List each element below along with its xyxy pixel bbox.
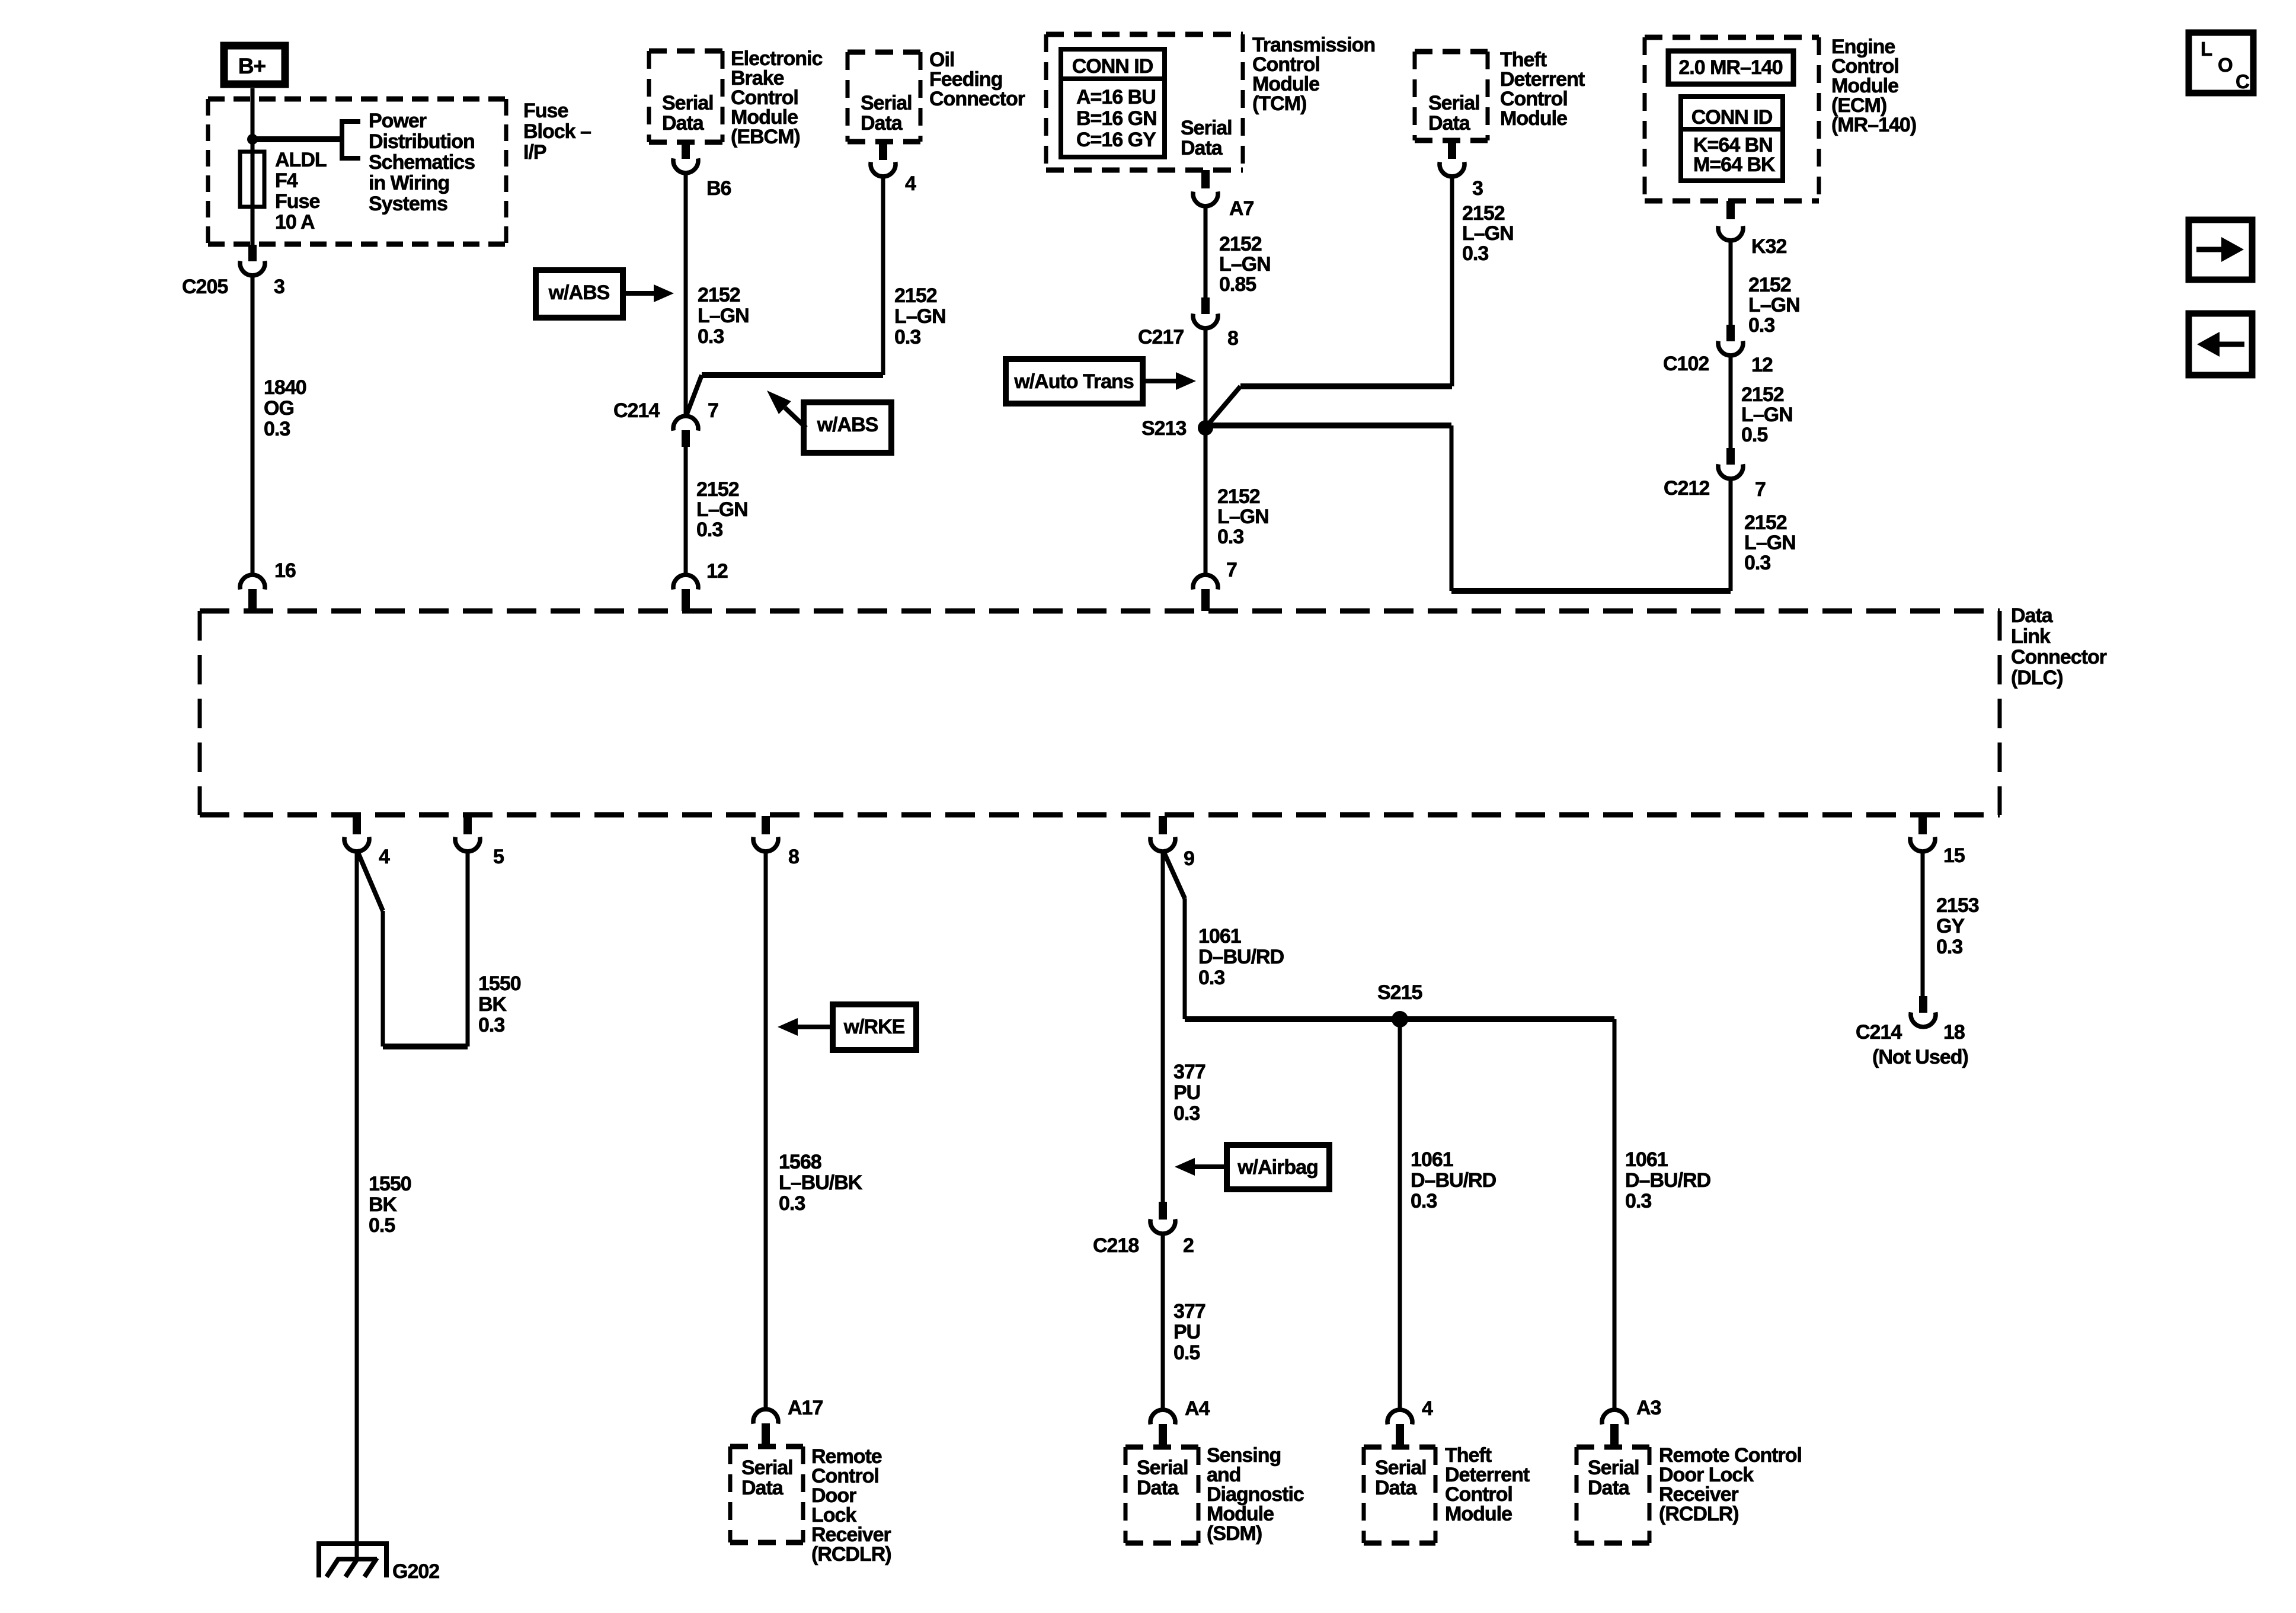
svg-text:D–BU/RD: D–BU/RD	[1625, 1169, 1711, 1192]
svg-text:G202: G202	[392, 1560, 439, 1583]
svg-text:Serial: Serial	[1428, 92, 1480, 114]
svg-text:Distribution: Distribution	[369, 130, 475, 153]
connector C217 pin 8	[1193, 313, 1218, 328]
svg-text:3: 3	[1472, 177, 1483, 200]
connector theft pin 3	[1440, 162, 1464, 177]
svg-text:C: C	[2236, 71, 2249, 92]
connector B6 of EBCM	[673, 158, 698, 173]
svg-text:w/Airbag: w/Airbag	[1237, 1156, 1318, 1179]
svg-text:0.3: 0.3	[1173, 1102, 1200, 1125]
svg-text:I/P: I/P	[523, 141, 546, 164]
svg-text:Serial: Serial	[741, 1457, 793, 1479]
wire K32 to C102	[1729, 239, 1733, 325]
svg-text:Serial: Serial	[1588, 1457, 1639, 1479]
module SDM serial data box	[1125, 1445, 1198, 1450]
svg-text:0.3: 0.3	[1625, 1190, 1651, 1212]
svg-text:Serial: Serial	[662, 92, 714, 114]
wire S215 to theft module pin 4	[1398, 1019, 1402, 1411]
svg-text:A7: A7	[1229, 197, 1254, 220]
wire diagonal into C214	[686, 375, 702, 415]
svg-text:0.3: 0.3	[698, 325, 724, 348]
ground G202	[319, 1544, 386, 1577]
svg-text:Serial: Serial	[1375, 1457, 1427, 1479]
wire C212 return path to S213	[1729, 477, 1733, 591]
flag box w/Auto Trans with arrow	[1006, 359, 1143, 404]
svg-text:2152: 2152	[1219, 233, 1262, 255]
svg-text:0.3: 0.3	[779, 1192, 805, 1215]
CONN ID table (ECM)	[1681, 97, 1783, 181]
connector A4	[1150, 1410, 1175, 1425]
svg-text:16: 16	[274, 559, 296, 582]
svg-text:1550: 1550	[369, 1173, 411, 1195]
svg-text:(Not Used): (Not Used)	[1872, 1046, 1968, 1068]
svg-text:Data: Data	[1181, 137, 1223, 159]
svg-text:BK: BK	[369, 1193, 398, 1216]
connector oil pin 4	[871, 162, 896, 177]
wire B+ to fuse	[251, 88, 255, 154]
svg-text:0.3: 0.3	[894, 326, 920, 348]
svg-text:5: 5	[493, 846, 504, 868]
svg-text:Serial: Serial	[1181, 117, 1232, 139]
svg-text:18: 18	[1943, 1021, 1965, 1044]
wire oil pin 4 to junction with EBCM wire	[881, 175, 885, 375]
flag box w/ABS with arrow	[536, 270, 623, 318]
connector C214 pin 18 (Not Used)	[1911, 1012, 1936, 1027]
wire C102 to C212	[1729, 354, 1733, 448]
svg-text:L–GN: L–GN	[894, 305, 946, 328]
svg-text:2152: 2152	[1462, 202, 1505, 225]
svg-text:Data: Data	[662, 112, 705, 135]
svg-text:S215: S215	[1377, 981, 1422, 1004]
connector C218 pin 2	[1150, 1219, 1175, 1234]
connector DLC pin 5	[455, 837, 480, 852]
svg-text:PU: PU	[1173, 1321, 1200, 1343]
wire S215 horizontal run	[1185, 1016, 1614, 1022]
svg-text:Data: Data	[1588, 1477, 1630, 1499]
svg-text:377: 377	[1173, 1061, 1205, 1083]
svg-text:w/ABS: w/ABS	[548, 281, 610, 304]
svg-text:OG: OG	[264, 397, 294, 420]
svg-text:Power: Power	[369, 110, 427, 132]
svg-text:0.3: 0.3	[1411, 1190, 1437, 1212]
svg-text:1568: 1568	[779, 1151, 821, 1173]
connector DLC pin 8	[753, 837, 778, 852]
svg-text:Block –: Block –	[523, 120, 591, 143]
svg-text:A17: A17	[788, 1397, 823, 1419]
svg-text:0.5: 0.5	[1741, 424, 1767, 446]
svg-text:PU: PU	[1173, 1081, 1200, 1104]
svg-text:Data: Data	[861, 112, 903, 135]
connector DLC pin 7	[1193, 575, 1218, 590]
svg-text:GY: GY	[1936, 915, 1965, 937]
wire C217 through S213 to DLC pin 7	[1204, 327, 1208, 576]
svg-text:BK: BK	[478, 993, 507, 1016]
connector DLC pin 9	[1150, 837, 1175, 852]
connector DLC pin 16	[240, 575, 265, 590]
svg-text:2152: 2152	[1744, 511, 1787, 534]
svg-text:1550: 1550	[478, 972, 521, 995]
label box 2.0 MR-140	[1668, 51, 1793, 84]
svg-text:C214: C214	[1856, 1021, 1902, 1044]
module theft deterrent serial data box (bottom)	[1364, 1445, 1435, 1450]
svg-text:0.3: 0.3	[478, 1014, 504, 1036]
svg-text:Serial: Serial	[861, 92, 912, 114]
module TCM dashed box	[1046, 32, 1243, 37]
wire A7 to C217	[1204, 204, 1208, 297]
svg-text:2: 2	[1183, 1234, 1194, 1257]
module Theft Deterrent serial data box	[1415, 49, 1488, 55]
svg-text:7: 7	[1226, 559, 1237, 581]
svg-text:Connector: Connector	[2011, 646, 2107, 668]
svg-text:Systems: Systems	[369, 193, 447, 215]
svg-text:L–GN: L–GN	[696, 498, 748, 521]
svg-text:(TCM): (TCM)	[1252, 92, 1306, 115]
node: junction dot in fuse block	[247, 134, 258, 145]
svg-text:0.3: 0.3	[1744, 552, 1770, 574]
svg-text:Module: Module	[1445, 1503, 1512, 1525]
wire C205 to DLC pin 16	[251, 274, 255, 576]
connector C205 pin 3	[240, 261, 265, 276]
legend LOC box	[2189, 33, 2253, 93]
flag box w/Airbag with arrow	[1227, 1145, 1329, 1189]
svg-text:(DLC): (DLC)	[2011, 667, 2063, 689]
svg-text:1061: 1061	[1198, 925, 1241, 948]
svg-text:L–GN: L–GN	[1744, 532, 1796, 554]
svg-text:2.0 MR–140: 2.0 MR–140	[1678, 56, 1782, 79]
svg-text:9: 9	[1184, 847, 1194, 870]
svg-text:L–BU/BK: L–BU/BK	[779, 1172, 863, 1194]
svg-text:Connector: Connector	[929, 88, 1025, 110]
svg-text:1840: 1840	[264, 376, 306, 399]
svg-text:Fuse: Fuse	[275, 190, 319, 213]
svg-text:7: 7	[708, 399, 718, 422]
wire pin 9 to C218	[1161, 850, 1165, 1203]
svg-text:Data: Data	[1137, 1477, 1179, 1499]
svg-text:0.3: 0.3	[1748, 314, 1774, 337]
wire C214 to DLC pin 12	[684, 447, 688, 576]
svg-text:B+: B+	[238, 54, 266, 78]
connector A3	[1602, 1410, 1627, 1425]
connector DLC pin 4	[344, 837, 369, 852]
svg-text:C217: C217	[1138, 326, 1184, 348]
fuse block dashed box	[208, 97, 506, 102]
connector C102 pin 12	[1718, 341, 1743, 356]
svg-text:15: 15	[1943, 844, 1965, 867]
svg-text:0.5: 0.5	[369, 1214, 395, 1237]
svg-text:(EBCM): (EBCM)	[731, 126, 800, 148]
svg-text:Fuse: Fuse	[523, 100, 568, 122]
svg-text:C214: C214	[613, 399, 660, 422]
module Oil Feeding Connector serial data box	[848, 50, 920, 55]
wire C218 to A4	[1161, 1232, 1165, 1411]
connector DLC pin 12	[673, 575, 698, 590]
node S215 splice dot	[1392, 1011, 1408, 1028]
wire B6 to C214	[684, 171, 688, 417]
fuse F4 symbol	[251, 153, 255, 209]
svg-text:C102: C102	[1663, 353, 1709, 375]
flag box w/ABS lower with diagonal arrow	[804, 402, 891, 453]
svg-text:2152: 2152	[1741, 383, 1784, 406]
svg-text:in Wiring: in Wiring	[369, 172, 449, 194]
svg-text:8: 8	[788, 846, 799, 868]
svg-text:Schematics: Schematics	[369, 151, 475, 174]
svg-text:C212: C212	[1664, 477, 1709, 500]
svg-text:(MR–140): (MR–140)	[1831, 114, 1916, 136]
svg-text:Module: Module	[1500, 107, 1567, 130]
node S213 splice dot	[1198, 420, 1213, 436]
svg-text:L–GN: L–GN	[1217, 505, 1269, 528]
connector DLC pin 15	[1910, 837, 1935, 852]
svg-text:0.5: 0.5	[1173, 1342, 1200, 1364]
wire pin 4 to ground	[355, 850, 359, 1560]
connector C212 pin 7	[1718, 464, 1743, 479]
svg-text:3: 3	[274, 276, 284, 298]
legend right-arrow box	[2189, 220, 2252, 280]
module RCDLR serial data box (right)	[1576, 1445, 1649, 1450]
svg-text:7: 7	[1755, 478, 1766, 501]
svg-text:8: 8	[1227, 327, 1238, 350]
connector theft pin 4	[1387, 1410, 1412, 1425]
svg-text:2153: 2153	[1936, 894, 1979, 917]
bracket symbol	[342, 121, 360, 158]
svg-text:1061: 1061	[1411, 1148, 1453, 1171]
wire S215 to RCDLR pin A3	[1613, 1019, 1617, 1411]
svg-text:Serial: Serial	[1137, 1457, 1188, 1479]
svg-text:10 A: 10 A	[275, 211, 315, 233]
svg-text:4: 4	[379, 846, 390, 868]
wire junction to bracket	[252, 136, 342, 142]
svg-text:L–GN: L–GN	[1741, 404, 1793, 426]
CONN ID table (TCM)	[1061, 49, 1165, 157]
wire pin 4 / pin 5 jumper	[357, 850, 383, 911]
wire pin 15 to C214 pin 18	[1921, 850, 1925, 997]
svg-text:C205: C205	[182, 276, 228, 298]
svg-text:1061: 1061	[1625, 1148, 1668, 1171]
svg-text:ALDL: ALDL	[275, 149, 327, 171]
svg-text:0.3: 0.3	[1198, 966, 1224, 989]
svg-text:377: 377	[1173, 1300, 1205, 1323]
svg-text:CONN ID: CONN ID	[1691, 106, 1773, 129]
svg-text:0.3: 0.3	[696, 519, 722, 541]
svg-text:C=16 GY: C=16 GY	[1076, 129, 1156, 151]
module ECM dashed box	[1645, 35, 1819, 40]
svg-text:B=16 GN: B=16 GN	[1076, 107, 1157, 130]
svg-text:L: L	[2201, 38, 2212, 60]
battery terminal B+	[224, 46, 285, 84]
svg-text:12: 12	[1751, 354, 1773, 376]
svg-text:Data: Data	[2011, 604, 2054, 627]
svg-text:L–GN: L–GN	[1748, 294, 1800, 316]
wire theft pin 3 to S213	[1450, 175, 1454, 386]
wire pin 8 to A17	[764, 850, 768, 1410]
svg-text:D–BU/RD: D–BU/RD	[1411, 1169, 1496, 1192]
svg-text:0.3: 0.3	[1217, 526, 1243, 548]
svg-text:0.3: 0.3	[1936, 936, 1962, 958]
svg-text:4: 4	[905, 172, 916, 195]
svg-text:4: 4	[1422, 1397, 1433, 1420]
svg-text:12: 12	[706, 560, 728, 583]
svg-text:(SDM): (SDM)	[1207, 1522, 1262, 1545]
svg-text:(RCDLR): (RCDLR)	[1659, 1503, 1739, 1525]
flag box w/RKE with arrow	[833, 1004, 916, 1050]
connector C214 pin 7	[673, 416, 698, 431]
svg-text:(RCDLR): (RCDLR)	[811, 1543, 891, 1566]
connector A7 of TCM	[1193, 191, 1218, 206]
svg-text:2152: 2152	[696, 478, 739, 501]
svg-text:w/RKE: w/RKE	[843, 1016, 905, 1038]
svg-text:Data: Data	[1375, 1477, 1418, 1499]
svg-text:w/Auto Trans: w/Auto Trans	[1013, 370, 1134, 393]
svg-text:A3: A3	[1636, 1397, 1661, 1419]
svg-text:C218: C218	[1093, 1234, 1139, 1257]
svg-text:CONN ID: CONN ID	[1072, 55, 1153, 78]
svg-text:0.85: 0.85	[1219, 273, 1256, 296]
svg-text:0.3: 0.3	[1462, 242, 1488, 265]
svg-text:B6: B6	[706, 177, 731, 200]
svg-text:L–GN: L–GN	[1219, 253, 1271, 276]
svg-text:L–GN: L–GN	[698, 305, 749, 327]
module RCDLR serial data box	[730, 1444, 803, 1449]
svg-text:F4: F4	[275, 169, 298, 192]
svg-text:Link: Link	[2011, 625, 2051, 648]
svg-text:S213: S213	[1141, 417, 1186, 440]
wire pin 9 branch diagonal	[1163, 850, 1185, 898]
svg-text:Data: Data	[1428, 112, 1471, 135]
svg-text:D–BU/RD: D–BU/RD	[1198, 946, 1284, 968]
svg-text:A4: A4	[1185, 1397, 1210, 1420]
svg-text:M=64 BK: M=64 BK	[1693, 153, 1776, 176]
svg-text:A=16 BU: A=16 BU	[1076, 86, 1156, 108]
wire fuse to C205	[251, 206, 255, 246]
svg-text:2152: 2152	[1217, 485, 1260, 508]
svg-text:L–GN: L–GN	[1462, 222, 1514, 245]
legend left-arrow box	[2189, 313, 2252, 375]
connector box Data Link Connector (DLC) dashed	[200, 609, 2000, 614]
svg-text:0.3: 0.3	[264, 418, 290, 440]
connector A17	[753, 1409, 778, 1424]
svg-text:2152: 2152	[698, 284, 740, 306]
svg-text:2152: 2152	[894, 284, 937, 307]
svg-text:Data: Data	[741, 1477, 784, 1499]
svg-text:2152: 2152	[1748, 274, 1791, 296]
svg-text:O: O	[2218, 54, 2233, 76]
svg-text:K32: K32	[1751, 235, 1786, 258]
svg-text:w/ABS: w/ABS	[817, 414, 878, 436]
module EBCM serial data box	[649, 49, 722, 54]
connector K32 of ECM	[1718, 226, 1743, 241]
